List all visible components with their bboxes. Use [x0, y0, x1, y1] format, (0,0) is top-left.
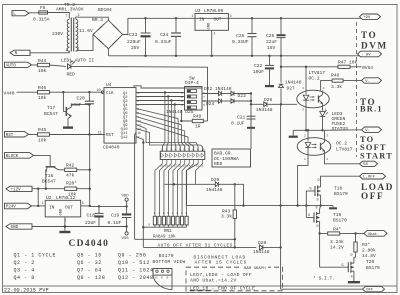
svg-text:0.1UF: 0.1UF [108, 220, 122, 226]
svg-text:14.2V: 14.2V [330, 245, 344, 251]
svg-text:GND: GND [208, 22, 212, 30]
svg-text:Q12: Q12 [121, 136, 129, 140]
svg-text:1N4148: 1N4148 [206, 187, 223, 193]
svg-text:BAR.GR.: BAR.GR. [214, 150, 233, 156]
svg-text:Q6 - 32: Q6 - 32 [77, 260, 102, 266]
label LOAD OFF [361, 182, 394, 201]
svg-text:START: START [360, 151, 393, 160]
svg-text:10k: 10k [38, 95, 47, 101]
wires U4 Q1-Q4 to DIP switch [136, 91, 185, 105]
connector OFF [363, 286, 385, 292]
svg-text:- 9V: - 9V [361, 54, 371, 58]
wire T18 drain to L.OFF [321, 176, 360, 182]
svg-text:D26: D26 [264, 97, 273, 103]
capacitor C18 22UF [85, 206, 104, 226]
wire Q9 to bargraph pin 9 [136, 125, 198, 152]
svg-text:D24: D24 [206, 101, 215, 107]
svg-text:Q5 - 16: Q5 - 16 [77, 253, 102, 259]
wire [29, 134, 38, 136]
LED1 AUTO II RED [61, 58, 94, 78]
svg-text:2: 2 [214, 32, 216, 36]
wire OC.2 pin1 down [298, 155, 308, 205]
label box BAR.GR. DC-10SRWA RED [212, 149, 251, 167]
svg-text:25V: 25V [131, 45, 140, 51]
transistor T19 BS170 [306, 206, 347, 234]
svg-text:0.33uF: 0.33uF [155, 39, 172, 45]
wire to U4 CLK [50, 91, 104, 93]
label DISCONNECT LOAD AFTER 15 CYCLES [194, 255, 248, 266]
connector N [10, 50, 30, 56]
svg-text:C22: C22 [254, 63, 263, 69]
wire BLOCK to T16 [34, 155, 51, 163]
svg-text:1N4148 D25: 1N4148 D25 [166, 109, 194, 115]
connector -9V [358, 51, 382, 57]
svg-text:16V: 16V [267, 45, 276, 51]
svg-text:R47 10k: R47 10k [338, 60, 358, 66]
svg-text:C18: C18 [87, 213, 96, 219]
svg-text:+9V: +9V [363, 16, 371, 20]
ground bar T20 source [348, 281, 360, 283]
wires bargraph to RN1 [155, 164, 203, 212]
dashed separator line [356, 22, 358, 157]
svg-text:S: S [351, 275, 353, 279]
svg-text:22uF: 22uF [266, 39, 277, 45]
svg-text:2: 2 [304, 135, 306, 138]
svg-text:10k: 10k [38, 68, 47, 74]
BS170 bottom view package [153, 269, 172, 290]
diode D25 1N4148 [166, 99, 234, 115]
wire U2 OUT rail [81, 205, 128, 208]
svg-text:10: 10 [97, 89, 101, 93]
svg-text:BOTTOM VIEW: BOTTOM VIEW [153, 259, 186, 265]
resistor R45 10k [38, 127, 50, 143]
+9V top rail [128, 17, 361, 19]
svg-text:Q10 - 512: Q10 - 512 [118, 260, 150, 266]
svg-text:AUTO: AUTO [6, 64, 17, 68]
wire N to primary [30, 51, 69, 53]
svg-text:10UF: 10UF [253, 69, 264, 75]
svg-text:S: S [316, 207, 318, 211]
svg-text:U2: U2 [46, 195, 52, 201]
svg-text:D20: D20 [211, 177, 220, 183]
svg-text:T16: T16 [45, 173, 54, 179]
svg-text:22UF: 22UF [85, 220, 96, 226]
diode D23 [231, 91, 246, 99]
svg-text:BD104: BD104 [98, 7, 112, 13]
VSS symbol [122, 227, 130, 242]
svg-text:G: G [161, 276, 163, 279]
diode D24 [206, 99, 222, 107]
connector RST [5, 132, 29, 138]
svg-text:Q9 - 256: Q9 - 256 [118, 253, 146, 259]
svg-text:R42: R42 [66, 162, 75, 168]
capacitor C19 0.1UF [108, 206, 132, 226]
svg-text:2: 2 [66, 48, 68, 52]
capacitor C21 0.1UF [231, 114, 256, 128]
svg-text:G: G [308, 214, 310, 218]
svg-text:R3*: R3* [362, 242, 371, 248]
svg-text:STATUS: STATUS [332, 126, 349, 132]
svg-text:AFTER 15 CYCLES: AFTER 15 CYCLES [195, 259, 248, 265]
svg-text:DVM: DVM [361, 41, 388, 51]
transistor T20 BS170 [320, 234, 380, 282]
svg-text:Q7 - 64: Q7 - 64 [77, 268, 102, 274]
svg-text:U3: U3 [195, 8, 201, 14]
svg-text:D22 1N4148: D22 1N4148 [204, 86, 232, 92]
svg-text:1: 1 [192, 14, 194, 18]
resistor network RN1 RA8A9 10k [142, 211, 188, 239]
svg-text:0.33UF: 0.33UF [232, 39, 249, 45]
diode D27 1N4148 [279, 56, 302, 105]
svg-text:OUT: OUT [214, 18, 222, 23]
fuse F5 0.315A [33, 5, 50, 22]
svg-text:OFF: OFF [366, 289, 374, 293]
ground bar T18 source [329, 206, 337, 210]
svg-text:22.09.2015 PVP: 22.09.2015 PVP [4, 288, 49, 294]
svg-text:3: 3 [230, 14, 232, 18]
wire D20 to gate bus [235, 184, 244, 205]
ground left of OC.2 [289, 130, 306, 138]
connector +12V [6, 186, 32, 192]
svg-text:220uF: 220uF [127, 39, 141, 45]
svg-text:Q8 - 128: Q8 - 128 [77, 275, 105, 281]
svg-text:1N4148: 1N4148 [285, 79, 302, 85]
diode D20 1N4148 [165, 177, 237, 193]
svg-text:VSS: VSS [122, 237, 130, 241]
resistor R44 10k [38, 58, 50, 74]
wire P24V to U2 IN [32, 205, 46, 207]
diode D28 1N4148 and OFF wire [279, 104, 362, 289]
connector L.OFF [360, 173, 386, 179]
label BS170 BOTTOM VIEW [153, 253, 186, 265]
connector AUTO [5, 62, 32, 68]
LED3 GREEN FUSE2 STATUS [320, 103, 349, 132]
svg-text:2: 2 [78, 46, 80, 50]
svg-text:4: 4 [302, 87, 304, 90]
resistor R47 10k and node 0V84 [281, 60, 373, 71]
svg-text:Q1 - 1 CYCLE: Q1 - 1 CYCLE [14, 253, 57, 259]
svg-text:R46: R46 [38, 85, 47, 91]
svg-text:Q3 - 4: Q3 - 4 [14, 268, 35, 274]
resistor R46 10k [38, 85, 50, 101]
svg-text:R44: R44 [38, 58, 47, 64]
svg-text:AUTO OFF AFTER 31 CYCLES: AUTO OFF AFTER 31 CYCLES [158, 244, 233, 249]
label S.I.T. [313, 276, 335, 282]
connector GND and wire [6, 224, 128, 230]
wire bridge plus riser [123, 18, 128, 34]
wire +12V [32, 188, 64, 206]
svg-text:U4: U4 [106, 82, 112, 88]
svg-text:0.315A: 0.315A [33, 16, 50, 22]
connector +9V [360, 14, 381, 20]
svg-text:R49: R49 [193, 114, 202, 120]
column to C21 and D26 [250, 94, 264, 117]
svg-text:AM01.3VA9V: AM01.3VA9V [56, 6, 84, 12]
wire fuse to transformer [48, 13, 70, 19]
svg-text:LM78L09: LM78L09 [204, 8, 224, 14]
wire AUTO OFF lower through D28 [143, 246, 256, 248]
connector P24V [5, 203, 32, 209]
svg-text:C25: C25 [236, 33, 245, 39]
wire bundle Q5-Q8 to bargraph [136, 109, 194, 152]
svg-text:BC547: BC547 [44, 111, 58, 117]
columns Q1-Q4 down to bargraph [162, 93, 175, 152]
svg-text:C19: C19 [111, 213, 120, 219]
svg-text:T20: T20 [366, 259, 375, 265]
VDD symbol [122, 195, 130, 207]
svg-text:BLOCK: BLOCK [6, 155, 19, 159]
IC U4 CD4040 [97, 82, 142, 150]
svg-text:VDD: VDD [122, 195, 130, 199]
svg-text:G: G [310, 187, 312, 191]
wire [222, 93, 231, 95]
resistor R20* 10k [65, 181, 90, 198]
svg-text:3: 3 [82, 201, 84, 205]
svg-text:1R: 1R [195, 123, 201, 129]
svg-text:OC.2: OC.2 [336, 141, 347, 147]
svg-text:T19: T19 [333, 212, 342, 218]
svg-text:R43: R43 [222, 208, 231, 214]
resistor R42 47k [59, 162, 90, 178]
svg-text:DC-10SRWA: DC-10SRWA [214, 156, 239, 162]
svg-text:RN1: RN1 [164, 230, 172, 234]
connector BLOCK [5, 153, 34, 159]
svg-text:D: D [317, 225, 319, 229]
svg-text:LM78L12: LM78L12 [56, 195, 76, 201]
svg-text:RED: RED [214, 161, 223, 167]
svg-text:3.3k: 3.3k [221, 214, 232, 220]
wire AUTO OFF upper [135, 238, 236, 247]
wire to V- lower [323, 129, 362, 132]
resistor R4* 3.24k 14.2V [318, 226, 356, 250]
capacitor C25 0.33UF [232, 18, 257, 56]
svg-text:230V: 230V [52, 31, 63, 37]
wire U4 VDD pin row [134, 86, 203, 88]
bridge rectifier BR.3 BD104 [92, 7, 123, 49]
svg-text:1: 1 [42, 201, 44, 205]
svg-text:D28: D28 [258, 240, 267, 246]
svg-text:3: 3 [78, 13, 80, 17]
svg-text:BS170: BS170 [334, 191, 348, 197]
svg-text:3.24k: 3.24k [330, 239, 344, 245]
transistor T16 BC547 [42, 163, 59, 189]
svg-text:RED: RED [67, 71, 76, 77]
regulator U2 LM78L12 [42, 195, 84, 233]
svg-text:CLK: CLK [106, 92, 114, 96]
wire DIP row B [202, 100, 219, 102]
wire secondary top to bridge [78, 17, 108, 20]
svg-text:S: S [317, 198, 319, 202]
svg-text:D: D [318, 179, 320, 183]
svg-text:1: 1 [323, 87, 325, 90]
svg-text:P24V: P24V [6, 206, 17, 210]
wire L to fuse [29, 12, 39, 14]
wire Q10 to bargraph pin 10 [136, 129, 203, 152]
svg-text:+12V: +12V [11, 188, 22, 192]
optocoupler OC.1 LTV817 [297, 67, 329, 112]
diode D28 1N4148 [253, 240, 281, 255]
svg-text:10: 10 [201, 149, 205, 152]
connector Ubat [356, 231, 388, 237]
wire LED3 node [306, 129, 323, 131]
regulator U3 LM78L09 [192, 8, 232, 56]
svg-text:BAR GRAPH: BAR GRAPH [244, 267, 266, 271]
wire DIP row A [202, 93, 219, 95]
0V bottom rail [108, 55, 359, 57]
svg-text:3: 3 [302, 109, 304, 112]
label TO BR.1 [360, 97, 383, 114]
CD4040 table [14, 239, 154, 281]
svg-text:V440: V440 [4, 91, 15, 97]
wire column to label box [250, 116, 252, 149]
svg-text:11.6V: 11.6V [79, 28, 93, 34]
wire row B to column [234, 100, 252, 102]
svg-text:1: 1 [304, 158, 306, 161]
label TO DVM [361, 30, 388, 51]
capacitor C23 220uF 25V [127, 18, 151, 56]
svg-text:11: 11 [98, 131, 102, 135]
diode D26 1N4148 [256, 97, 273, 113]
wire to U4 RST [50, 134, 106, 136]
capacitor C20 10mF [71, 92, 95, 136]
svg-text:BR.1: BR.1 [360, 105, 383, 114]
svg-text:Q12 - 2048: Q12 - 2048 [118, 275, 154, 281]
transistor T17 BC547 [44, 92, 89, 129]
svg-text:D: D [351, 254, 353, 258]
svg-text:V-: V- [365, 129, 370, 133]
svg-text:1N4148: 1N4148 [253, 249, 270, 255]
svg-text:V-: V- [365, 80, 370, 84]
svg-text:OC.1: OC.1 [309, 76, 320, 82]
transistor T18 BS170 [306, 179, 348, 206]
connector V- lower [362, 127, 382, 133]
svg-text:LED7,LED8 - LOAD OFF: LED7,LED8 - LOAD OFF [190, 272, 252, 278]
svg-text:C21: C21 [237, 114, 246, 120]
svg-text:R20*: R20* [66, 181, 77, 187]
svg-text:Q4 - 8: Q4 - 8 [14, 275, 35, 281]
svg-text:DIP-4: DIP-4 [185, 80, 199, 86]
wire secondary bottom to bridge [78, 35, 93, 51]
wire to opto OC.1 [267, 103, 297, 105]
bargraph display DC-10SRWA [160, 146, 205, 167]
svg-text:1: 1 [66, 13, 68, 17]
wire [32, 64, 38, 66]
svg-text:3: 3 [326, 135, 328, 138]
capacitor C22 10UF [253, 56, 274, 87]
svg-text:R4*: R4* [333, 226, 342, 232]
wire OC.1 pin3 down [305, 104, 307, 132]
svg-text:BC547: BC547 [42, 178, 56, 184]
wire bridge minus drop [107, 49, 109, 56]
diode D22 1N4148 [204, 86, 232, 96]
resistor R49 1R [180, 110, 207, 129]
resistor R43 3.3k [221, 184, 237, 239]
svg-text:C23: C23 [129, 32, 138, 38]
svg-text:D: D [156, 276, 158, 279]
svg-text:R45: R45 [38, 127, 47, 133]
wire row A to column [234, 92, 252, 94]
svg-text:RST: RST [6, 134, 14, 138]
svg-text:BR.3: BR.3 [92, 17, 103, 23]
wire [50, 65, 67, 66]
svg-text:0V84: 0V84 [362, 65, 373, 71]
node V440 [4, 91, 38, 97]
svg-text:RA8A9 10k: RA8A9 10k [153, 234, 176, 239]
svg-text:OUT: OUT [65, 205, 73, 210]
svg-text:4: 4 [326, 158, 328, 161]
svg-text:BS170: BS170 [159, 253, 174, 259]
capacitor C26 22uF 16V [266, 18, 286, 56]
svg-text:10mF: 10mF [71, 102, 82, 108]
svg-text:AND Ubat.=14.2V: AND Ubat.=14.2V [190, 278, 237, 284]
label TO SOFT START [360, 135, 393, 160]
connector L [12, 11, 29, 17]
svg-text:Q2 - 2: Q2 - 2 [14, 260, 35, 266]
connector SS [360, 161, 378, 167]
svg-text:F5: F5 [40, 5, 46, 11]
connector V- upper [362, 78, 382, 84]
wire LED1 to R49 column [71, 66, 208, 121]
svg-text:LTV817: LTV817 [336, 146, 353, 152]
svg-text:C26: C26 [266, 33, 275, 39]
svg-text:D27: D27 [287, 86, 296, 92]
svg-text:BS170: BS170 [366, 265, 380, 271]
svg-text:T17: T17 [47, 105, 56, 111]
resistor R3* 2.80k 14.8V [354, 234, 376, 260]
svg-text:CD4040: CD4040 [69, 239, 110, 249]
svg-text:1N4148: 1N4148 [256, 107, 273, 113]
DIP switch SW DIP-4 [181, 76, 205, 110]
svg-text:TO: TO [361, 30, 377, 40]
svg-text:14.8V: 14.8V [362, 253, 376, 259]
svg-text:R48: R48 [331, 73, 340, 79]
wire [222, 100, 231, 102]
wire OC.2 pin4 to SS [325, 151, 360, 164]
svg-text:IN: IN [49, 205, 55, 210]
svg-text:2.80k: 2.80k [362, 248, 376, 254]
svg-text:0.1UF: 0.1UF [231, 121, 245, 127]
svg-text:47k: 47k [66, 173, 75, 179]
wire Q11 column down [135, 133, 136, 240]
svg-text:LTV817: LTV817 [309, 70, 326, 76]
svg-text:10k: 10k [38, 137, 47, 143]
svg-text:BS170: BS170 [333, 218, 347, 224]
svg-text:G: G [342, 264, 344, 268]
svg-text:OFF: OFF [361, 191, 384, 201]
svg-text:T18: T18 [334, 185, 343, 191]
svg-text:GND: GND [11, 226, 19, 230]
svg-text:L.OFF: L.OFF [363, 176, 376, 180]
resistor R48 3.3k [321, 73, 362, 91]
svg-text:C20: C20 [77, 95, 86, 101]
transformer TR.2 AM01.3VA9V [52, 2, 93, 52]
svg-text:LED1 AUTO II: LED1 AUTO II [61, 58, 94, 64]
label AUTO OFF AFTER 31 CYCLES [158, 244, 233, 249]
date text [4, 288, 49, 294]
svg-text:3.3k: 3.3k [331, 84, 342, 90]
capacitor C24 0.33uF [155, 18, 181, 56]
svg-text:* S.I.T.: * S.I.T. [313, 276, 335, 282]
gate bus wire [186, 204, 333, 206]
wire Q12 column down [136, 137, 143, 248]
svg-text:S: S [167, 276, 169, 279]
svg-text:Ubat.: Ubat. [368, 232, 380, 237]
svg-text:Q11 - 1024: Q11 - 1024 [118, 268, 154, 274]
svg-text:GND: GND [60, 208, 64, 216]
optocoupler OC.2 LTV817 [297, 129, 353, 161]
svg-text:C24: C24 [160, 32, 169, 38]
svg-text:RST: RST [106, 134, 114, 138]
